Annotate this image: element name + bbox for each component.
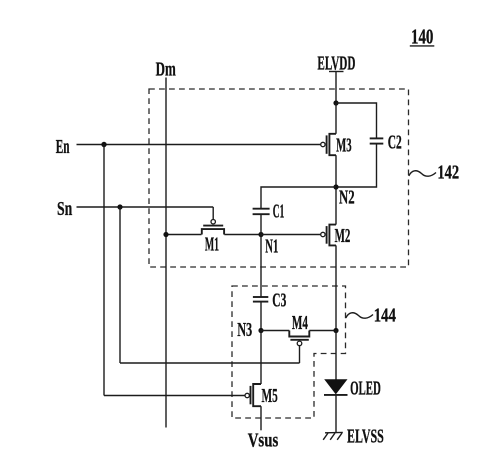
svg-text:C3: C3 <box>272 290 286 312</box>
svg-text:Vsus: Vsus <box>248 429 279 451</box>
wire: ELVDD lead down <box>335 72 337 104</box>
svg-text:140: 140 <box>411 25 433 49</box>
svg-text:M2: M2 <box>335 225 351 247</box>
svg-text:M4: M4 <box>292 312 308 334</box>
svg-text:144: 144 <box>374 305 396 327</box>
leader squiggle to 142 <box>409 171 436 176</box>
wire: Sn scan line <box>77 206 214 208</box>
wire: N2 to C1 top <box>261 187 336 208</box>
svg-text:C2: C2 <box>388 132 402 154</box>
node N1 <box>258 232 263 237</box>
svg-text:OLED: OLED <box>350 378 381 400</box>
wire: En vertical branch <box>103 145 105 396</box>
transistor M4 (PMOS, horizontal, gate on bottom) <box>289 331 309 346</box>
wire: M3 source to N2 <box>335 155 337 187</box>
node N3 <box>258 328 263 333</box>
transistor M5 (PMOS, vertical, gate on left) <box>245 384 261 406</box>
node: M1-Dm junction <box>163 232 168 237</box>
transistor M3 (PMOS, vertical, gate on left) <box>321 134 336 155</box>
dashed box 142 <box>149 89 409 267</box>
svg-text:142: 142 <box>437 162 459 184</box>
wire: N1 down to C3 top <box>260 235 262 297</box>
wire: M1 drain to N1 <box>224 234 261 236</box>
svg-text:En: En <box>56 136 70 158</box>
svg-text:M1: M1 <box>205 233 219 255</box>
ground ELVSS symbol <box>323 432 343 439</box>
wire: M4 drain to main column <box>309 330 336 332</box>
svg-text:Sn: Sn <box>57 198 73 220</box>
wire: M1 gate lead down from Sn <box>212 207 214 220</box>
wire: En scan line to M3 gate <box>77 144 321 146</box>
svg-text:N1: N1 <box>265 236 278 258</box>
svg-text:N3: N3 <box>237 319 252 341</box>
dashed box 144 (notched rectangle) <box>232 286 346 418</box>
diode OLED <box>324 379 348 395</box>
node: M4-anode junction <box>333 328 338 333</box>
wire: M4 gate lead up <box>299 346 301 363</box>
wire: Sn to M4 gate <box>120 362 300 364</box>
svg-text:C1: C1 <box>273 201 285 223</box>
transistor M1 (PMOS, horizontal, gate on top) <box>202 220 224 235</box>
wire: Dm to M1 source <box>166 234 202 236</box>
transistor M2 (PMOS, vertical, gate on left) <box>321 225 336 246</box>
wire: branch to C2 top <box>336 103 377 138</box>
svg-text:ELVSS: ELVSS <box>347 426 384 448</box>
node: Sn branch junction <box>117 204 122 209</box>
wire: M5 source down to Vsus <box>260 406 262 430</box>
wire: Sn vertical branch <box>119 207 121 363</box>
capacitor C2 <box>370 138 384 143</box>
svg-text:M3: M3 <box>336 135 352 157</box>
svg-text:M5: M5 <box>262 385 278 407</box>
wire: C3 bottom to N3 <box>260 302 262 331</box>
capacitor C3 <box>253 297 268 302</box>
wire: junction down to OLED anode <box>335 331 337 380</box>
wire: ELVDD junction to M3 drain <box>335 103 337 134</box>
ELVDD terminal tick <box>329 71 344 73</box>
wire: N1 to M2 gate <box>261 234 321 236</box>
wire: En to M5 gate <box>104 395 245 397</box>
leader squiggle to 144 <box>346 313 373 318</box>
capacitor C1 <box>253 209 270 215</box>
node: En branch junction <box>101 142 106 147</box>
svg-text:N2: N2 <box>339 186 355 208</box>
wire: C1 bottom to N1 <box>260 214 262 234</box>
wire: N2 to M2 drain <box>335 187 337 225</box>
wire: N3 to M4 source <box>261 330 289 332</box>
node N2 <box>333 184 338 189</box>
svg-text:Dm: Dm <box>156 58 176 80</box>
wire: OLED cathode to ELVSS <box>335 395 337 433</box>
wire: M2 source down to N3 row <box>335 245 337 330</box>
wire: C2 bottom to N2 <box>336 144 377 187</box>
wire: Dm data line (vertical) <box>165 78 167 428</box>
node: ELVDD branch junction <box>333 100 338 105</box>
wire: N3 down to M5 drain <box>260 331 262 385</box>
